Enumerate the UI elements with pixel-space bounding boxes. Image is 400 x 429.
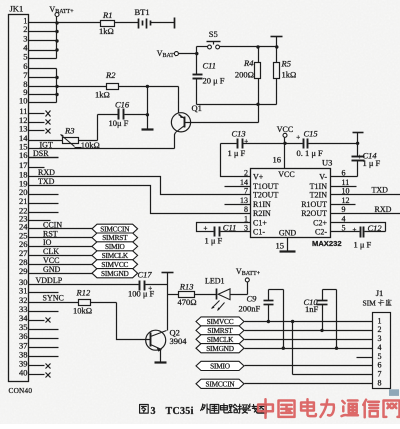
svg-text:3: 3 xyxy=(151,406,156,417)
svg-text:R1OUT: R1OUT xyxy=(301,200,327,209)
svg-text:+: + xyxy=(204,225,208,233)
svg-text:100 μ F: 100 μ F xyxy=(128,289,155,299)
svg-text:1kΩ: 1kΩ xyxy=(282,70,297,80)
svg-text:2: 2 xyxy=(23,24,27,34)
svg-text:C2-: C2- xyxy=(315,228,327,237)
svg-text:U3: U3 xyxy=(322,158,332,168)
svg-text:3: 3 xyxy=(378,334,382,343)
svg-text:C1+: C1+ xyxy=(253,218,267,227)
svg-text:SIMIO: SIMIO xyxy=(105,242,125,251)
svg-text:SIMRST: SIMRST xyxy=(102,233,128,242)
svg-text:29: 29 xyxy=(19,266,28,276)
svg-text:DSR: DSR xyxy=(33,149,49,158)
svg-text:C2+: C2+ xyxy=(313,218,327,227)
svg-text:GND: GND xyxy=(279,229,297,238)
svg-text:16: 16 xyxy=(273,155,282,165)
svg-text:C11: C11 xyxy=(203,61,217,71)
svg-text:V-: V- xyxy=(319,172,327,181)
svg-text:SIMVCC: SIMVCC xyxy=(207,317,234,326)
svg-text:200Ω: 200Ω xyxy=(235,70,254,80)
svg-text:SIMRST: SIMRST xyxy=(207,326,233,335)
svg-text:1 μ F: 1 μ F xyxy=(354,240,372,250)
svg-text:5: 5 xyxy=(378,352,382,361)
svg-text:R1IN: R1IN xyxy=(253,200,271,209)
svg-text:T2IN: T2IN xyxy=(310,190,328,199)
svg-text:SIMIO: SIMIO xyxy=(210,362,230,371)
svg-text:TXD: TXD xyxy=(38,177,55,186)
svg-text:CON40: CON40 xyxy=(9,386,33,395)
svg-text:R2IN: R2IN xyxy=(253,209,271,218)
svg-text:R12: R12 xyxy=(76,287,91,297)
svg-text:0. 1 μ F: 0. 1 μ F xyxy=(297,148,324,158)
svg-text:GND: GND xyxy=(43,265,61,274)
svg-text:LED1: LED1 xyxy=(205,277,225,286)
svg-text:C15: C15 xyxy=(304,128,318,138)
svg-text:R4: R4 xyxy=(243,58,254,68)
svg-text:VCC: VCC xyxy=(277,125,293,134)
svg-text:C12: C12 xyxy=(368,223,383,233)
svg-text:2: 2 xyxy=(244,168,248,177)
svg-text:20 μ F: 20 μ F xyxy=(203,76,225,86)
svg-text:IO: IO xyxy=(43,238,52,247)
svg-text:7: 7 xyxy=(378,370,382,379)
svg-text:SIMVCC: SIMVCC xyxy=(101,260,128,269)
svg-text:12: 12 xyxy=(342,196,350,205)
svg-text:SIMCLK: SIMCLK xyxy=(207,335,234,344)
svg-text:1 μ F: 1 μ F xyxy=(228,148,246,158)
svg-text:6: 6 xyxy=(342,168,346,177)
svg-text:R13: R13 xyxy=(179,282,194,292)
svg-text:1nF: 1nF xyxy=(305,304,319,314)
svg-text:RXD: RXD xyxy=(375,205,392,214)
svg-text:CCIN: CCIN xyxy=(43,221,62,230)
svg-text:200nF: 200nF xyxy=(239,304,261,314)
svg-text:+: + xyxy=(296,134,300,142)
svg-text:470Ω: 470Ω xyxy=(178,297,197,307)
svg-text:R1: R1 xyxy=(102,10,112,20)
svg-text:SYNC: SYNC xyxy=(43,294,64,303)
svg-text:1 μ F: 1 μ F xyxy=(363,158,381,168)
svg-text:VCC: VCC xyxy=(278,170,294,179)
svg-text:6: 6 xyxy=(378,361,382,370)
svg-text:SIMGND: SIMGND xyxy=(101,269,129,278)
svg-text:1 μ F: 1 μ F xyxy=(205,236,223,246)
svg-text:10: 10 xyxy=(19,96,28,106)
svg-text:SIMGND: SIMGND xyxy=(206,344,234,353)
svg-text:13: 13 xyxy=(19,124,28,134)
svg-text:10kΩ: 10kΩ xyxy=(73,306,92,316)
svg-text:R2OUT: R2OUT xyxy=(301,209,327,218)
svg-text:RXD: RXD xyxy=(38,168,55,177)
svg-text:+: + xyxy=(358,153,362,161)
svg-text:15: 15 xyxy=(276,241,285,251)
svg-text:JK1: JK1 xyxy=(10,4,24,14)
svg-text:+: + xyxy=(244,138,248,146)
svg-text:TXD: TXD xyxy=(372,186,389,195)
svg-text:S5: S5 xyxy=(209,29,218,39)
svg-text:13: 13 xyxy=(240,196,248,205)
svg-text:2: 2 xyxy=(378,325,382,334)
svg-text:TC35i: TC35i xyxy=(166,406,194,417)
svg-text:1: 1 xyxy=(378,316,382,325)
svg-text:SIMCCIN: SIMCCIN xyxy=(205,379,235,388)
svg-text:CLK: CLK xyxy=(43,247,59,256)
svg-text:1kΩ: 1kΩ xyxy=(95,90,110,100)
svg-text:V+: V+ xyxy=(253,172,264,181)
svg-text:R2: R2 xyxy=(105,70,116,80)
svg-text:T2OUT: T2OUT xyxy=(253,190,278,199)
svg-text:C1-: C1- xyxy=(253,228,265,237)
svg-text:VDDLP: VDDLP xyxy=(36,276,63,285)
svg-text:4: 4 xyxy=(378,343,382,352)
svg-text:3904: 3904 xyxy=(170,336,188,346)
svg-text:R5: R5 xyxy=(281,59,291,69)
svg-text:5: 5 xyxy=(23,52,27,62)
svg-text:RST: RST xyxy=(43,229,58,238)
svg-text:C16: C16 xyxy=(115,100,130,110)
svg-text:9: 9 xyxy=(342,205,346,214)
svg-text:+: + xyxy=(353,226,357,234)
svg-text:1kΩ: 1kΩ xyxy=(99,26,114,36)
svg-text:8: 8 xyxy=(378,379,382,388)
svg-text:C9: C9 xyxy=(247,294,258,304)
svg-text:8: 8 xyxy=(244,205,248,214)
svg-text:SIM: SIM xyxy=(363,299,377,308)
svg-text:J1: J1 xyxy=(376,288,384,298)
svg-text:R3: R3 xyxy=(64,125,74,135)
svg-text:16: 16 xyxy=(19,150,28,160)
svg-text:VCC: VCC xyxy=(43,256,59,265)
svg-text:MAX232: MAX232 xyxy=(312,239,342,248)
svg-text:BT1: BT1 xyxy=(135,7,150,17)
svg-text:SIMCCIN: SIMCCIN xyxy=(100,224,130,233)
svg-text:40: 40 xyxy=(19,368,28,378)
svg-text:C17: C17 xyxy=(138,269,153,279)
svg-text:C11: C11 xyxy=(223,223,237,233)
svg-text:SIMCLK: SIMCLK xyxy=(102,251,129,260)
svg-text:10μ F: 10μ F xyxy=(109,118,129,128)
